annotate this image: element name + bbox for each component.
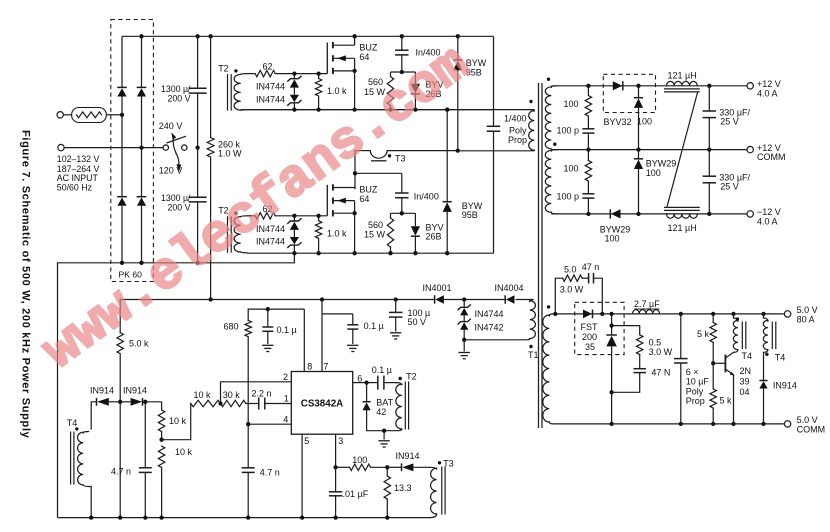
transformer T1 primary [531, 110, 535, 111]
MOSFET BUZ64 upper source [333, 70, 355, 72]
bridge diode D1 [117, 86, 127, 88]
svg-text:26B: 26B [426, 232, 442, 242]
MOSFET BUZ64 upper drain to rail [354, 36, 356, 45]
phasing dot T1 5V [547, 305, 550, 308]
svg-text:42: 42 [376, 407, 386, 417]
wire IN914 node [119, 402, 121, 518]
svg-text:4: 4 [283, 415, 288, 425]
wire ground riser left [57, 263, 59, 518]
capacitor In/400 lower [401, 173, 403, 193]
svg-text:Poly: Poly [509, 125, 527, 135]
svg-text:2.2 n: 2.2 n [252, 389, 272, 399]
svg-text:T4: T4 [775, 353, 786, 363]
capacitor .01uF [335, 467, 337, 492]
capacitor 47N [633, 368, 646, 370]
transformer T4 output winding 1 [733, 314, 735, 318]
diode IN914 left [91, 402, 96, 429]
svg-text:10 k: 10 k [175, 447, 193, 457]
svg-text:64: 64 [359, 52, 369, 62]
svg-text:IN4001: IN4001 [423, 283, 452, 293]
svg-text:15 W: 15 W [364, 229, 386, 239]
MOSFET BUZ64 upper drain [333, 44, 355, 46]
svg-text:7: 7 [323, 362, 328, 372]
wire pin3 sense [336, 466, 350, 468]
wire bottom bridge rail [58, 253, 295, 263]
transformer T4 control core [70, 432, 72, 485]
svg-text:Poly: Poly [686, 386, 704, 396]
terminal +12V [747, 83, 753, 89]
AC input terminal (fuse line) [57, 112, 63, 118]
transformer T1 aux winding [530, 300, 533, 302]
transistor 2N3904 [713, 362, 725, 364]
phasing dot T4 1 [736, 317, 739, 320]
diode IN914 sense [387, 466, 401, 468]
diode BYW29 middle [634, 158, 643, 160]
resistor 100 upper [587, 86, 589, 96]
svg-text:121 µH: 121 µH [668, 71, 697, 81]
capacitor 0.1u pin6 [367, 382, 378, 384]
transformer T4 core 2 [771, 322, 773, 350]
svg-text:100: 100 [646, 168, 661, 178]
wire -12V rail [551, 213, 747, 215]
svg-text:240 V: 240 V [159, 121, 183, 131]
capacitor 1300u/200V lower [197, 148, 199, 198]
svg-text:6 ×: 6 × [686, 367, 699, 377]
coupled core diagonal [667, 93, 698, 207]
svg-text:5.0 V: 5.0 V [797, 305, 818, 315]
svg-text:COMM: COMM [757, 152, 786, 162]
diode IN4001 [434, 295, 436, 303]
svg-text:1/400: 1/400 [504, 114, 527, 124]
terminal +12V COMM [747, 146, 753, 152]
svg-text:50/60 Hz: 50/60 Hz [57, 183, 92, 193]
wire 5V rail [554, 313, 786, 315]
zener IN4744 pair lower [293, 216, 295, 221]
svg-text:35: 35 [585, 342, 595, 352]
diode BYW 95B upper [457, 36, 459, 60]
diode IN914 output [763, 352, 765, 380]
MOSFET BUZ64 upper channel [332, 42, 334, 48]
resistor 13.3 [386, 467, 388, 476]
svg-text:T2: T2 [406, 371, 417, 381]
wire T3 node [355, 150, 370, 152]
wire +12V COMM rail [551, 149, 747, 151]
capacitor 1/400 Poly Prop [493, 36, 495, 126]
capacitor 4.7n osc [247, 424, 249, 468]
svg-text:25 V: 25 V [720, 182, 739, 192]
diode FST horizontal [583, 310, 592, 319]
svg-text:62: 62 [263, 62, 273, 72]
resistor 10k second [158, 446, 164, 468]
svg-text:10 k: 10 k [169, 416, 187, 426]
capacitor 0.1u VREF [267, 309, 269, 327]
diode BYW 95B lower [446, 110, 448, 202]
diode BAT42 [366, 383, 368, 402]
capacitor 100p lower [582, 193, 594, 195]
svg-text:121 µH: 121 µH [668, 223, 697, 233]
inductor 2.7uF [633, 310, 660, 314]
phasing dot T3 secondary [438, 461, 441, 464]
transformer T1 secondary 12V lower [551, 150, 557, 151]
phasing dot T1 secondary top [547, 78, 550, 81]
terminal 5V COMM [784, 421, 790, 427]
svg-text:T4: T4 [742, 351, 753, 361]
resistor 100 lower [587, 150, 589, 161]
svg-text:2N: 2N [740, 366, 752, 376]
capacitor 4.7n left [144, 402, 146, 468]
svg-text:13.3: 13.3 [394, 483, 412, 493]
phasing dot T4 2 [765, 353, 768, 356]
diode BYV 26B lower [414, 213, 416, 226]
svg-text:100: 100 [605, 234, 620, 244]
wire pin6 [353, 382, 367, 384]
svg-text:BUZ: BUZ [359, 42, 378, 52]
AC input terminal (switch line) [58, 144, 64, 150]
svg-text:BUZ: BUZ [359, 185, 378, 195]
svg-text:5.0 k: 5.0 k [129, 339, 149, 349]
capacitor 100p upper [582, 128, 594, 130]
svg-text:5.0: 5.0 [564, 265, 577, 275]
wire top rail [122, 35, 494, 37]
svg-text:3.0 W: 3.0 W [649, 347, 673, 357]
transformer T1 secondary 12V upper [551, 86, 557, 88]
phasing dot T2 lower [234, 212, 237, 215]
MOSFET BUZ64 lower body arrow [333, 200, 355, 202]
phasing dot T1 primary [529, 100, 532, 103]
ground BAT42 [382, 429, 386, 433]
svg-text:IN914: IN914 [123, 385, 147, 395]
diode BYV32 [613, 81, 623, 90]
svg-text:IN914: IN914 [396, 451, 420, 461]
svg-text:0.1 µ: 0.1 µ [364, 321, 384, 331]
current transformer T3 primary loop [370, 151, 387, 159]
IC CS3842A box [291, 372, 352, 435]
svg-text:120 V: 120 V [159, 166, 183, 176]
svg-text:1: 1 [284, 393, 289, 403]
svg-text:4.7 n: 4.7 n [111, 466, 131, 476]
wire rail lower section [247, 252, 494, 254]
svg-text:5: 5 [304, 436, 309, 446]
capacitor 0.1u VCC [322, 313, 353, 315]
svg-text:In/400: In/400 [414, 192, 439, 202]
wire [106, 114, 122, 116]
svg-text:IN4004: IN4004 [495, 283, 524, 293]
transformer T2 primary core [404, 382, 406, 430]
resistor 0.5 3.0W [612, 326, 640, 335]
svg-text:0.1 µ: 0.1 µ [372, 365, 392, 375]
svg-text:3.0 W: 3.0 W [560, 284, 584, 294]
svg-text:10 µF: 10 µF [686, 377, 710, 387]
phasing dot T2 upper [234, 69, 237, 72]
wire [64, 147, 163, 149]
transformer T3 secondary core [441, 467, 443, 515]
wire 5V return rail [554, 423, 786, 425]
wire midpoint rail [241, 109, 531, 111]
transformer T2 lower winding [234, 217, 241, 252]
svg-text:IN4744: IN4744 [256, 94, 285, 104]
svg-text:30 k: 30 k [223, 390, 241, 400]
transformer T2 primary winding [396, 383, 402, 385]
snubber 47n capacitor [588, 273, 590, 284]
resistor 560 15W lower [390, 213, 392, 218]
svg-text:04: 04 [740, 387, 750, 397]
transformer T4 control winding [83, 432, 88, 434]
MOSFET BUZ64 lower gate [326, 185, 328, 216]
capacitor 2.2n [258, 398, 260, 410]
resistor 30k [221, 400, 246, 406]
transformer T2 upper core [227, 74, 229, 111]
svg-text:39: 39 [740, 377, 750, 387]
svg-text:IN4744: IN4744 [475, 309, 504, 319]
resistor 62 lower [255, 213, 275, 219]
switch 240V/120V [163, 145, 168, 150]
svg-text:50 V: 50 V [408, 317, 427, 327]
resistor 260k [210, 36, 212, 137]
terminal -12V [747, 211, 753, 217]
svg-text:1.0 W: 1.0 W [218, 149, 242, 159]
wire [371, 466, 388, 468]
wire [247, 109, 494, 111]
svg-text:4.0 A: 4.0 A [757, 88, 778, 98]
svg-text:0.1 µ: 0.1 µ [277, 325, 297, 335]
phasing dot T3 [388, 154, 391, 157]
dashed box FST [575, 302, 624, 354]
resistor 680 [247, 309, 249, 320]
svg-text:47 n: 47 n [582, 262, 600, 272]
svg-text:1.0 k: 1.0 k [327, 228, 347, 238]
dashed box BYV32 [603, 74, 655, 112]
svg-text:80 A: 80 A [797, 315, 815, 325]
svg-text:680: 680 [223, 322, 238, 332]
svg-text:5 k: 5 k [697, 329, 710, 339]
transformer T2 lower core [227, 216, 229, 252]
MOSFET BUZ64 upper body arrow [333, 57, 355, 59]
svg-text:CS3842A: CS3842A [301, 399, 343, 410]
dashed box PK60 [111, 20, 154, 282]
diode IN4004 [504, 295, 506, 303]
bridge diode D4 [137, 196, 147, 198]
pin5 lead [301, 434, 303, 517]
transformer T4 output winding 2 [763, 314, 765, 318]
svg-text:2: 2 [283, 372, 288, 382]
svg-text:25 V: 25 V [720, 116, 739, 126]
svg-text:IN914: IN914 [90, 385, 114, 395]
zener IN4744 pair upper [293, 74, 295, 79]
transformer T1 core [538, 83, 540, 428]
bridge diode D2 [137, 86, 147, 88]
transformer T1 5V secondary [549, 314, 553, 316]
transformer T3 secondary winding [430, 467, 437, 469]
pin7 lead [321, 300, 323, 372]
resistor 100 sense [350, 464, 371, 470]
fuse F1 [72, 108, 107, 123]
svg-text:Prop: Prop [686, 396, 705, 406]
capacitor 1300u/200V upper [197, 36, 199, 88]
resistor 5.0k [119, 300, 121, 333]
svg-text:100: 100 [564, 99, 579, 109]
svg-text:100 p: 100 p [557, 126, 580, 136]
svg-text:5.0 V: 5.0 V [797, 415, 818, 425]
svg-text:5 k: 5 k [720, 396, 733, 406]
phasing dot T1 secondary mid [553, 143, 556, 146]
diode FST vertical [611, 314, 613, 335]
svg-text:4.7 n: 4.7 n [260, 467, 280, 477]
transformer T2 upper winding [234, 74, 241, 110]
diode BYW29 upper (in box) [634, 97, 643, 99]
resistor 560 15W upper [390, 72, 392, 77]
capacitor In/400 upper [401, 36, 403, 50]
svg-text:95B: 95B [462, 210, 478, 220]
wire to pin1 [265, 403, 292, 405]
wire [275, 73, 327, 75]
svg-text:T4: T4 [67, 418, 78, 428]
resistor 5k upper [712, 314, 714, 323]
svg-text:47 N: 47 N [651, 368, 670, 378]
wire pin4 [248, 423, 291, 425]
svg-text:T2: T2 [218, 63, 229, 73]
MOSFET BUZ64 lower drain [333, 187, 355, 189]
svg-text:BAT: BAT [376, 397, 393, 407]
inductor 121uH upper [667, 81, 698, 85]
svg-text:200 V: 200 V [168, 202, 191, 212]
svg-text:200 V: 200 V [168, 93, 191, 103]
wire VCC rail [120, 299, 434, 301]
svg-text:64: 64 [359, 194, 369, 204]
pin8 lead [303, 309, 305, 371]
zener IN4744 small [463, 300, 465, 308]
terminal 5V [784, 311, 790, 317]
wire [63, 114, 72, 116]
svg-text:Prop: Prop [508, 135, 527, 145]
svg-text:100: 100 [637, 117, 652, 127]
svg-text:Figure 7. Schematic of 500 W,: Figure 7. Schematic of 500 W, 200 kHz Po… [20, 130, 32, 439]
svg-text:BYV32: BYV32 [604, 117, 632, 127]
inductor 121uH lower [664, 206, 700, 208]
wire divider to chain [162, 404, 191, 440]
svg-text:.01 µF: .01 µF [343, 489, 369, 499]
svg-text:FST: FST [581, 322, 599, 332]
pin3 lead [335, 434, 337, 467]
snubber 5.0 3.0W resistor [555, 278, 562, 314]
svg-text:COMM: COMM [797, 425, 826, 435]
resistor 10k horizontal [191, 400, 221, 406]
ground aux [463, 340, 465, 352]
phasing dot T1 aux [529, 345, 532, 348]
capacitor 330uF/25V upper [708, 86, 710, 111]
svg-text:T3: T3 [443, 459, 454, 469]
resistor 10k first [161, 402, 163, 410]
bridge diode column right [141, 36, 143, 87]
svg-text:102–132 V: 102–132 V [57, 154, 100, 164]
svg-text:4.0 A: 4.0 A [757, 217, 778, 227]
capacitor 100u 50V [395, 300, 397, 313]
wire [275, 215, 327, 217]
wire [246, 403, 259, 405]
MOSFET BUZ64 lower channel [332, 184, 334, 190]
svg-text:100: 100 [352, 455, 367, 465]
svg-text:IN4744: IN4744 [256, 82, 285, 92]
phasing dot T4 control [75, 427, 78, 430]
wire +12V rail [551, 85, 747, 87]
wire pin2 feedback [221, 382, 292, 404]
wire control ground rail [58, 517, 431, 519]
svg-text:8: 8 [307, 362, 312, 372]
resistor 62 upper [255, 70, 275, 76]
MOSFET BUZ64 lower source [333, 212, 355, 214]
svg-text:100: 100 [564, 164, 579, 174]
svg-text:T1: T1 [528, 350, 539, 360]
svg-text:3: 3 [338, 436, 343, 446]
resistor 1.0k lower [318, 216, 320, 221]
bridge diode column left [121, 36, 123, 87]
svg-text:0.5: 0.5 [649, 338, 662, 348]
wire [247, 215, 255, 217]
zener IN4742 small [463, 315, 465, 321]
wire [387, 150, 458, 152]
diode IN914 right [120, 401, 130, 403]
svg-text:2.7 µF: 2.7 µF [634, 299, 660, 309]
wire snubber bar lower [391, 212, 416, 214]
svg-text:100 p: 100 p [557, 192, 580, 202]
wire VREF rail [248, 308, 304, 310]
wire [247, 73, 255, 75]
resistor 1.0k upper [318, 74, 320, 79]
phasing dot T2 primary [399, 377, 402, 380]
capacitor 6x10uF Poly Prop [680, 314, 682, 359]
svg-text:560: 560 [368, 220, 383, 230]
svg-text:IN4742: IN4742 [475, 322, 504, 332]
svg-text:200: 200 [582, 332, 597, 342]
wire drain branch lower [354, 151, 356, 189]
transformer T4 core 1 [741, 322, 743, 350]
diode BYW29 bottom [609, 209, 611, 218]
wire snubber bar upper [391, 71, 416, 73]
svg-text:10 k: 10 k [194, 390, 212, 400]
svg-text:1.0 k: 1.0 k [327, 86, 347, 96]
resistor 5k lower [712, 363, 714, 389]
MOSFET BUZ64 upper gate [326, 43, 328, 74]
diode BYV 26B upper [414, 72, 416, 84]
capacitor 330uF/25V lower [708, 150, 710, 177]
bridge diode D3 [117, 196, 127, 198]
svg-text:T3: T3 [395, 153, 406, 163]
svg-text:IN914: IN914 [773, 381, 797, 391]
